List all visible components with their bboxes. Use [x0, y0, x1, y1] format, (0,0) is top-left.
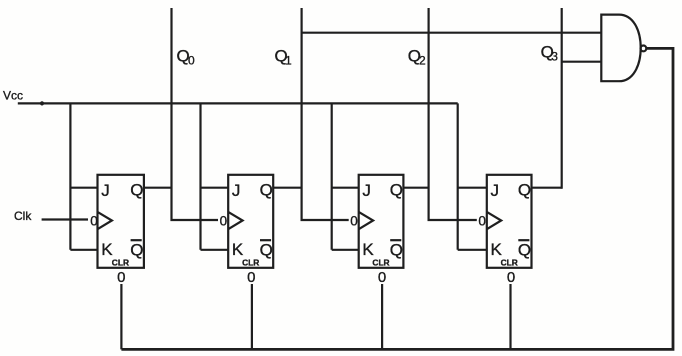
svg-text:J: J	[101, 181, 110, 200]
svg-text:0: 0	[478, 214, 486, 229]
svg-text:Vcc: Vcc	[3, 89, 23, 103]
svg-text:0: 0	[507, 269, 515, 286]
svg-text:Q: Q	[260, 241, 273, 260]
svg-text:CLR: CLR	[372, 258, 389, 268]
svg-text:0: 0	[378, 269, 386, 286]
svg-text:0: 0	[350, 214, 358, 229]
svg-text:CLR: CLR	[242, 258, 259, 268]
svg-text:0: 0	[188, 54, 195, 68]
svg-text:0: 0	[247, 269, 255, 286]
svg-text:Q: Q	[390, 241, 403, 260]
svg-text:2: 2	[419, 54, 426, 68]
svg-text:3: 3	[551, 50, 558, 64]
svg-text:Q: Q	[390, 181, 403, 200]
svg-text:Q: Q	[518, 181, 531, 200]
svg-text:Q: Q	[130, 241, 143, 260]
svg-text:Q: Q	[518, 241, 531, 260]
svg-text:J: J	[362, 181, 371, 200]
svg-text:0: 0	[117, 269, 125, 286]
svg-text:Q: Q	[260, 181, 273, 200]
svg-text:K: K	[491, 240, 503, 259]
svg-text:1: 1	[285, 53, 292, 67]
svg-text:K: K	[232, 240, 244, 259]
svg-text:J: J	[232, 181, 241, 200]
svg-text:K: K	[101, 240, 113, 259]
svg-text:CLR: CLR	[112, 258, 129, 268]
svg-text:CLR: CLR	[501, 258, 518, 268]
svg-text:Clk: Clk	[14, 209, 32, 223]
svg-text:0: 0	[220, 214, 228, 229]
svg-text:J: J	[491, 181, 500, 200]
svg-text:Q: Q	[130, 181, 143, 200]
svg-text:0: 0	[90, 214, 98, 229]
svg-text:K: K	[362, 240, 374, 259]
